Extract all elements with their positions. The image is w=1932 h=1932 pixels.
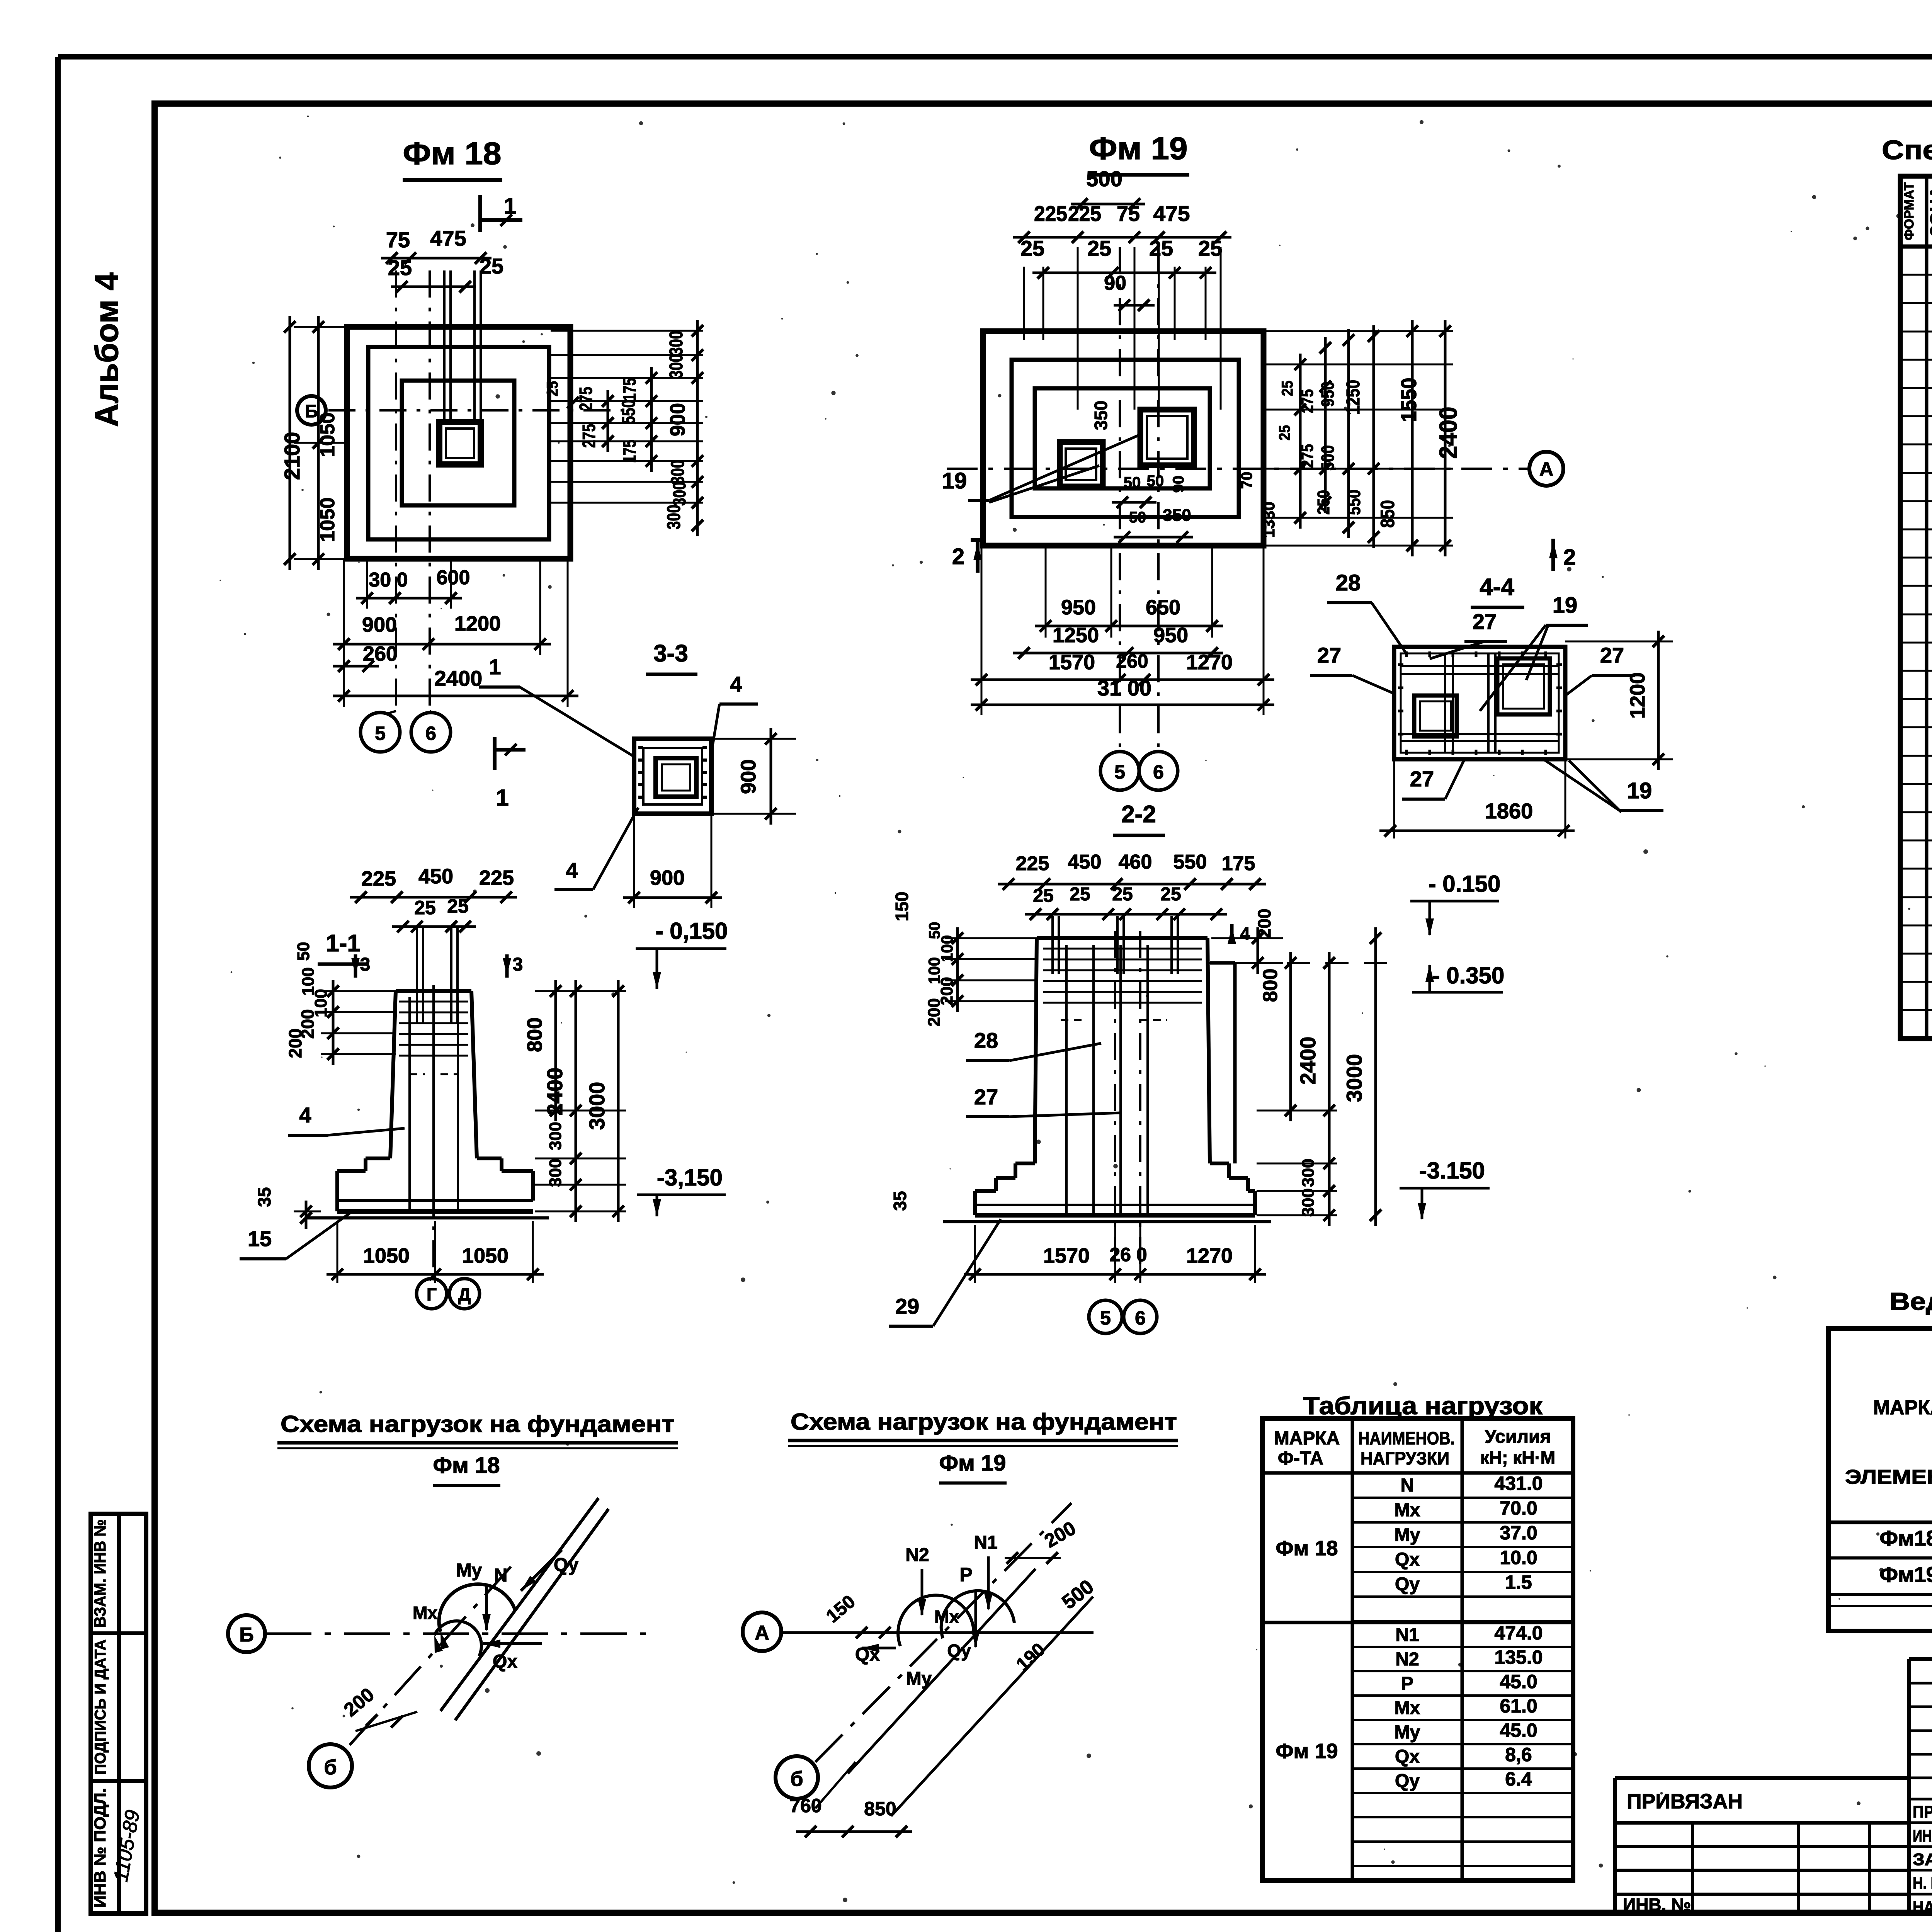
svg-text:Мy: Мy (1395, 1722, 1420, 1743)
svg-text:Мy: Мy (456, 1560, 482, 1581)
svg-text:27: 27 (1473, 609, 1497, 634)
svg-text:500: 500 (1086, 167, 1122, 191)
svg-text:300: 300 (669, 482, 689, 506)
svg-text:225: 225 (361, 867, 396, 890)
svg-text:70: 70 (1238, 472, 1255, 489)
svg-text:200: 200 (285, 1029, 305, 1058)
svg-text:Б: Б (239, 1624, 253, 1646)
svg-text:27: 27 (1600, 643, 1624, 667)
svg-text:Мx: Мx (413, 1603, 437, 1623)
svg-text:1050: 1050 (316, 412, 339, 457)
svg-text:1200: 1200 (1626, 672, 1649, 719)
svg-text:Мx: Мx (1395, 1500, 1420, 1520)
svg-text:3000: 3000 (1342, 1054, 1366, 1102)
svg-text:1: 1 (496, 785, 509, 811)
svg-text:175: 175 (619, 440, 639, 463)
svg-text:300: 300 (546, 1122, 565, 1150)
svg-text:3: 3 (513, 954, 523, 975)
svg-text:900: 900 (737, 759, 760, 794)
svg-text:25: 25 (1149, 236, 1173, 260)
svg-text:ВЗАМ. ИНВ №: ВЗАМ. ИНВ № (91, 1519, 109, 1628)
svg-text:25: 25 (1160, 884, 1181, 905)
svg-text:25: 25 (1033, 886, 1053, 906)
svg-text:4: 4 (566, 858, 578, 883)
svg-text:N2: N2 (905, 1545, 929, 1565)
svg-text:-3.150: -3.150 (1419, 1158, 1485, 1184)
svg-text:1250: 1250 (1053, 624, 1099, 647)
svg-text:1200: 1200 (454, 612, 501, 635)
svg-text:27: 27 (974, 1085, 998, 1109)
svg-text:А: А (755, 1622, 769, 1644)
svg-text:1050: 1050 (363, 1244, 410, 1267)
svg-text:Схема нагрузок на фундамент: Схема нагрузок на фундамент (281, 1411, 675, 1437)
svg-text:45.0: 45.0 (1500, 1719, 1537, 1741)
svg-text:25: 25 (1279, 381, 1296, 396)
svg-text:ЗОНА: ЗОНА (1928, 186, 1932, 236)
svg-text:3-3: 3-3 (653, 640, 688, 667)
svg-text:950: 950 (1061, 596, 1096, 619)
svg-text:ИНВ. №: ИНВ. № (1623, 1895, 1691, 1915)
svg-text:650: 650 (1146, 596, 1180, 619)
svg-text:600: 600 (437, 566, 470, 589)
svg-text:300: 300 (668, 460, 688, 485)
svg-text:4: 4 (730, 672, 742, 696)
svg-text:450: 450 (418, 865, 453, 888)
svg-text:- 0.350: - 0.350 (1432, 963, 1505, 988)
svg-text:19: 19 (1553, 593, 1578, 618)
svg-text:8,6: 8,6 (1505, 1744, 1532, 1765)
svg-text:1: 1 (504, 194, 516, 219)
svg-text:6.4: 6.4 (1505, 1768, 1532, 1790)
svg-text:б: б (324, 1756, 337, 1779)
svg-text:Б: Б (305, 401, 318, 421)
svg-text:50: 50 (1129, 509, 1146, 526)
svg-text:550: 550 (1173, 851, 1207, 873)
svg-text:1050: 1050 (462, 1244, 509, 1267)
svg-text:ФОРМАТ: ФОРМАТ (1902, 182, 1917, 240)
svg-text:25: 25 (1198, 236, 1222, 260)
svg-text:Таблица нагрузок: Таблица нагрузок (1303, 1392, 1543, 1420)
svg-text:ЗАВ.ГР: ЗАВ.ГР (1913, 1850, 1932, 1869)
svg-text:25: 25 (414, 897, 436, 918)
svg-text:Д: Д (458, 1284, 471, 1304)
svg-text:25: 25 (388, 255, 412, 280)
svg-text:6: 6 (1135, 1307, 1146, 1329)
svg-text:МАРКА: МАРКА (1873, 1396, 1932, 1419)
svg-text:50: 50 (1124, 474, 1141, 491)
svg-text:2400: 2400 (543, 1068, 567, 1116)
svg-text:Qy: Qy (1395, 1574, 1420, 1595)
svg-text:900: 900 (650, 866, 685, 889)
svg-text:550: 550 (1344, 490, 1364, 515)
svg-text:70.0: 70.0 (1500, 1497, 1537, 1519)
svg-text:4-4: 4-4 (1480, 574, 1514, 600)
svg-text:450: 450 (1068, 851, 1102, 873)
svg-text:6: 6 (1153, 761, 1164, 783)
svg-text:б: б (790, 1767, 803, 1791)
svg-text:31 00: 31 00 (1097, 676, 1151, 700)
svg-text:1570: 1570 (1049, 651, 1095, 674)
svg-text:N2: N2 (1395, 1649, 1419, 1670)
svg-text:900: 900 (666, 403, 689, 436)
svg-text:2: 2 (1563, 545, 1576, 570)
svg-text:25: 25 (1112, 884, 1133, 905)
svg-text:10.0: 10.0 (1500, 1547, 1537, 1568)
svg-text:1860: 1860 (1485, 799, 1533, 823)
svg-text:- 0,150: - 0,150 (656, 918, 728, 944)
svg-text:Qy: Qy (554, 1555, 578, 1575)
svg-text:НАЧ ОТД: НАЧ ОТД (1913, 1898, 1932, 1917)
svg-text:ЭЛЕМЕНТА: ЭЛЕМЕНТА (1845, 1466, 1932, 1488)
svg-text:Мx: Мx (934, 1607, 959, 1627)
svg-text:1270: 1270 (1186, 1244, 1233, 1267)
svg-text:25: 25 (480, 254, 503, 278)
svg-text:135.0: 135.0 (1494, 1646, 1543, 1668)
svg-text:1.5: 1.5 (1505, 1571, 1532, 1593)
svg-text:225: 225 (1016, 852, 1049, 875)
svg-text:275: 275 (1298, 444, 1317, 468)
svg-text:250: 250 (1314, 490, 1333, 515)
svg-text:350: 350 (1091, 401, 1111, 430)
svg-text:37.0: 37.0 (1500, 1522, 1537, 1544)
svg-text:ИНВ № ПОДЛ.: ИНВ № ПОДЛ. (91, 1788, 109, 1908)
svg-text:- 0.150: - 0.150 (1429, 871, 1501, 897)
svg-text:Г: Г (427, 1284, 437, 1304)
svg-text:300: 300 (664, 505, 684, 529)
svg-text:475: 475 (430, 226, 466, 250)
svg-text:275: 275 (579, 424, 599, 448)
svg-text:2100: 2100 (280, 432, 304, 480)
svg-text:5: 5 (1100, 1307, 1111, 1329)
svg-text:300: 300 (1299, 1158, 1318, 1187)
svg-text:1-1: 1-1 (326, 930, 361, 957)
svg-text:Фм19: Фм19 (1879, 1562, 1932, 1587)
svg-text:30 0: 30 0 (369, 569, 408, 591)
svg-text:35: 35 (254, 1187, 274, 1207)
svg-text:225: 225 (479, 866, 514, 889)
svg-text:5: 5 (1114, 761, 1125, 783)
svg-text:300: 300 (666, 331, 687, 355)
svg-text:50: 50 (294, 942, 313, 961)
svg-text:Фм 18: Фм 18 (1276, 1537, 1338, 1560)
svg-text:950: 950 (1153, 624, 1188, 647)
svg-text:4: 4 (1240, 923, 1250, 944)
svg-text:А: А (1539, 458, 1553, 480)
svg-text:25: 25 (447, 895, 469, 917)
svg-text:Усилия: Усилия (1485, 1427, 1551, 1447)
svg-text:Фм 19: Фм 19 (939, 1451, 1006, 1476)
svg-text:25: 25 (544, 381, 561, 396)
svg-text:ПОДПИСЬ И ДАТА: ПОДПИСЬ И ДАТА (92, 1639, 109, 1775)
svg-text:Qx: Qx (493, 1651, 517, 1672)
svg-text:N1: N1 (1395, 1625, 1419, 1645)
svg-text:25: 25 (1276, 425, 1293, 440)
svg-text:90: 90 (1104, 272, 1126, 294)
svg-text:800: 800 (523, 1017, 546, 1052)
svg-text:29: 29 (895, 1294, 919, 1318)
svg-text:1050: 1050 (316, 497, 339, 542)
svg-text:900: 900 (362, 613, 397, 636)
svg-text:275: 275 (1298, 389, 1317, 413)
svg-text:НАИМЕНОВ.: НАИМЕНОВ. (1358, 1428, 1455, 1448)
svg-text:Фм 19: Фм 19 (1276, 1740, 1338, 1763)
svg-text:90: 90 (1170, 476, 1187, 493)
svg-text:Ф-ТА: Ф-ТА (1278, 1448, 1323, 1469)
svg-text:2-2: 2-2 (1121, 801, 1156, 828)
svg-text:75: 75 (1117, 201, 1140, 226)
svg-text:2400: 2400 (434, 666, 483, 690)
svg-text:275: 275 (576, 387, 596, 411)
svg-text:431.0: 431.0 (1494, 1473, 1543, 1494)
svg-text:Qx: Qx (1395, 1549, 1420, 1570)
svg-text:1570: 1570 (1043, 1244, 1090, 1267)
svg-text:28: 28 (1336, 570, 1361, 595)
svg-text:Мy: Мy (1395, 1525, 1420, 1545)
svg-text:Фм 18: Фм 18 (403, 136, 502, 171)
svg-text:Спецификация монолитных фундам: Спецификация монолитных фундаментов Фм18… (1882, 135, 1932, 165)
svg-text:35: 35 (890, 1191, 910, 1211)
svg-text:ИНЖ.1КАТ: ИНЖ.1КАТ (1913, 1827, 1932, 1845)
svg-text:1550: 1550 (1396, 378, 1421, 422)
svg-text:850: 850 (1377, 500, 1398, 528)
svg-text:5: 5 (375, 723, 386, 744)
svg-text:1: 1 (489, 655, 501, 679)
svg-text:28: 28 (974, 1028, 998, 1053)
svg-text:300: 300 (666, 354, 687, 379)
svg-text:75: 75 (386, 228, 410, 252)
svg-text:25: 25 (1087, 236, 1111, 260)
svg-text:3: 3 (360, 954, 371, 975)
svg-text:ПРОВЕР.: ПРОВЕР. (1913, 1803, 1932, 1821)
svg-text:ПРИВЯЗАН: ПРИВЯЗАН (1627, 1790, 1743, 1813)
svg-text:Фм 18: Фм 18 (433, 1453, 500, 1478)
svg-text:460: 460 (1119, 851, 1152, 873)
svg-text:27: 27 (1317, 643, 1341, 667)
svg-text:474.0: 474.0 (1494, 1622, 1543, 1644)
svg-text:Схема нагрузок на фундамент: Схема нагрузок на фундамент (791, 1409, 1177, 1435)
svg-text:850: 850 (864, 1798, 896, 1820)
svg-text:25: 25 (1020, 236, 1044, 260)
svg-text:3000: 3000 (585, 1082, 609, 1130)
svg-text:Ведомость расхода стали на: Ведомость расхода стали на элемент, кг (1889, 1287, 1932, 1315)
svg-text:кН; кН·М: кН; кН·М (1480, 1447, 1555, 1468)
svg-text:2400: 2400 (1296, 1037, 1320, 1085)
svg-text:Фм18: Фм18 (1879, 1526, 1932, 1550)
svg-text:Qy: Qy (947, 1641, 971, 1661)
svg-text:19: 19 (1627, 778, 1652, 803)
svg-text:Р: Р (959, 1564, 972, 1585)
svg-text:Фм 19: Фм 19 (1089, 131, 1188, 166)
svg-text:НАГРУЗКИ: НАГРУЗКИ (1361, 1448, 1449, 1468)
svg-text:Мy: Мy (906, 1668, 932, 1689)
svg-text:1330: 1330 (1260, 502, 1278, 537)
svg-text:Мx: Мx (1395, 1698, 1420, 1718)
svg-text:950: 950 (1318, 381, 1338, 407)
svg-text:МАРКА: МАРКА (1274, 1428, 1340, 1449)
svg-text:6: 6 (425, 723, 436, 744)
svg-text:225: 225 (1068, 201, 1101, 226)
svg-text:1250: 1250 (1343, 380, 1364, 415)
svg-text:175: 175 (1222, 852, 1255, 875)
svg-text:800: 800 (1259, 969, 1282, 1002)
svg-text:Qy: Qy (1395, 1771, 1420, 1791)
svg-text:350: 350 (1163, 506, 1191, 525)
svg-text:2: 2 (952, 544, 964, 569)
svg-text:175: 175 (619, 378, 639, 401)
svg-text:200: 200 (925, 998, 944, 1026)
svg-text:260: 260 (363, 642, 398, 665)
svg-text:200: 200 (1254, 909, 1274, 939)
svg-text:300: 300 (546, 1158, 565, 1187)
svg-text:19: 19 (942, 468, 967, 493)
svg-text:Альбом 4: Альбом 4 (88, 272, 125, 427)
svg-text:25: 25 (1070, 884, 1090, 905)
svg-text:15: 15 (248, 1226, 272, 1251)
svg-text:550: 550 (619, 400, 639, 424)
svg-text:475: 475 (1153, 201, 1190, 226)
svg-text:Н. КОНТР.: Н. КОНТР. (1913, 1874, 1932, 1893)
svg-text:N: N (1401, 1475, 1414, 1496)
svg-text:-3,150: -3,150 (657, 1165, 723, 1190)
svg-text:N: N (494, 1565, 508, 1586)
svg-text:4: 4 (299, 1103, 311, 1127)
svg-text:27: 27 (1410, 767, 1434, 791)
svg-text:1270: 1270 (1186, 651, 1233, 674)
svg-text:50: 50 (1147, 473, 1164, 490)
svg-text:Qx: Qx (1395, 1747, 1420, 1767)
svg-text:500: 500 (1318, 445, 1338, 471)
svg-text:Р: Р (1401, 1673, 1413, 1694)
svg-text:260: 260 (1116, 650, 1148, 672)
svg-text:45.0: 45.0 (1500, 1671, 1537, 1692)
svg-text:225: 225 (1034, 201, 1067, 226)
svg-text:150: 150 (892, 892, 912, 922)
svg-text:N1: N1 (974, 1532, 997, 1553)
svg-text:61.0: 61.0 (1500, 1695, 1537, 1717)
svg-text:300: 300 (1299, 1188, 1318, 1216)
svg-text:2400: 2400 (1434, 407, 1462, 459)
